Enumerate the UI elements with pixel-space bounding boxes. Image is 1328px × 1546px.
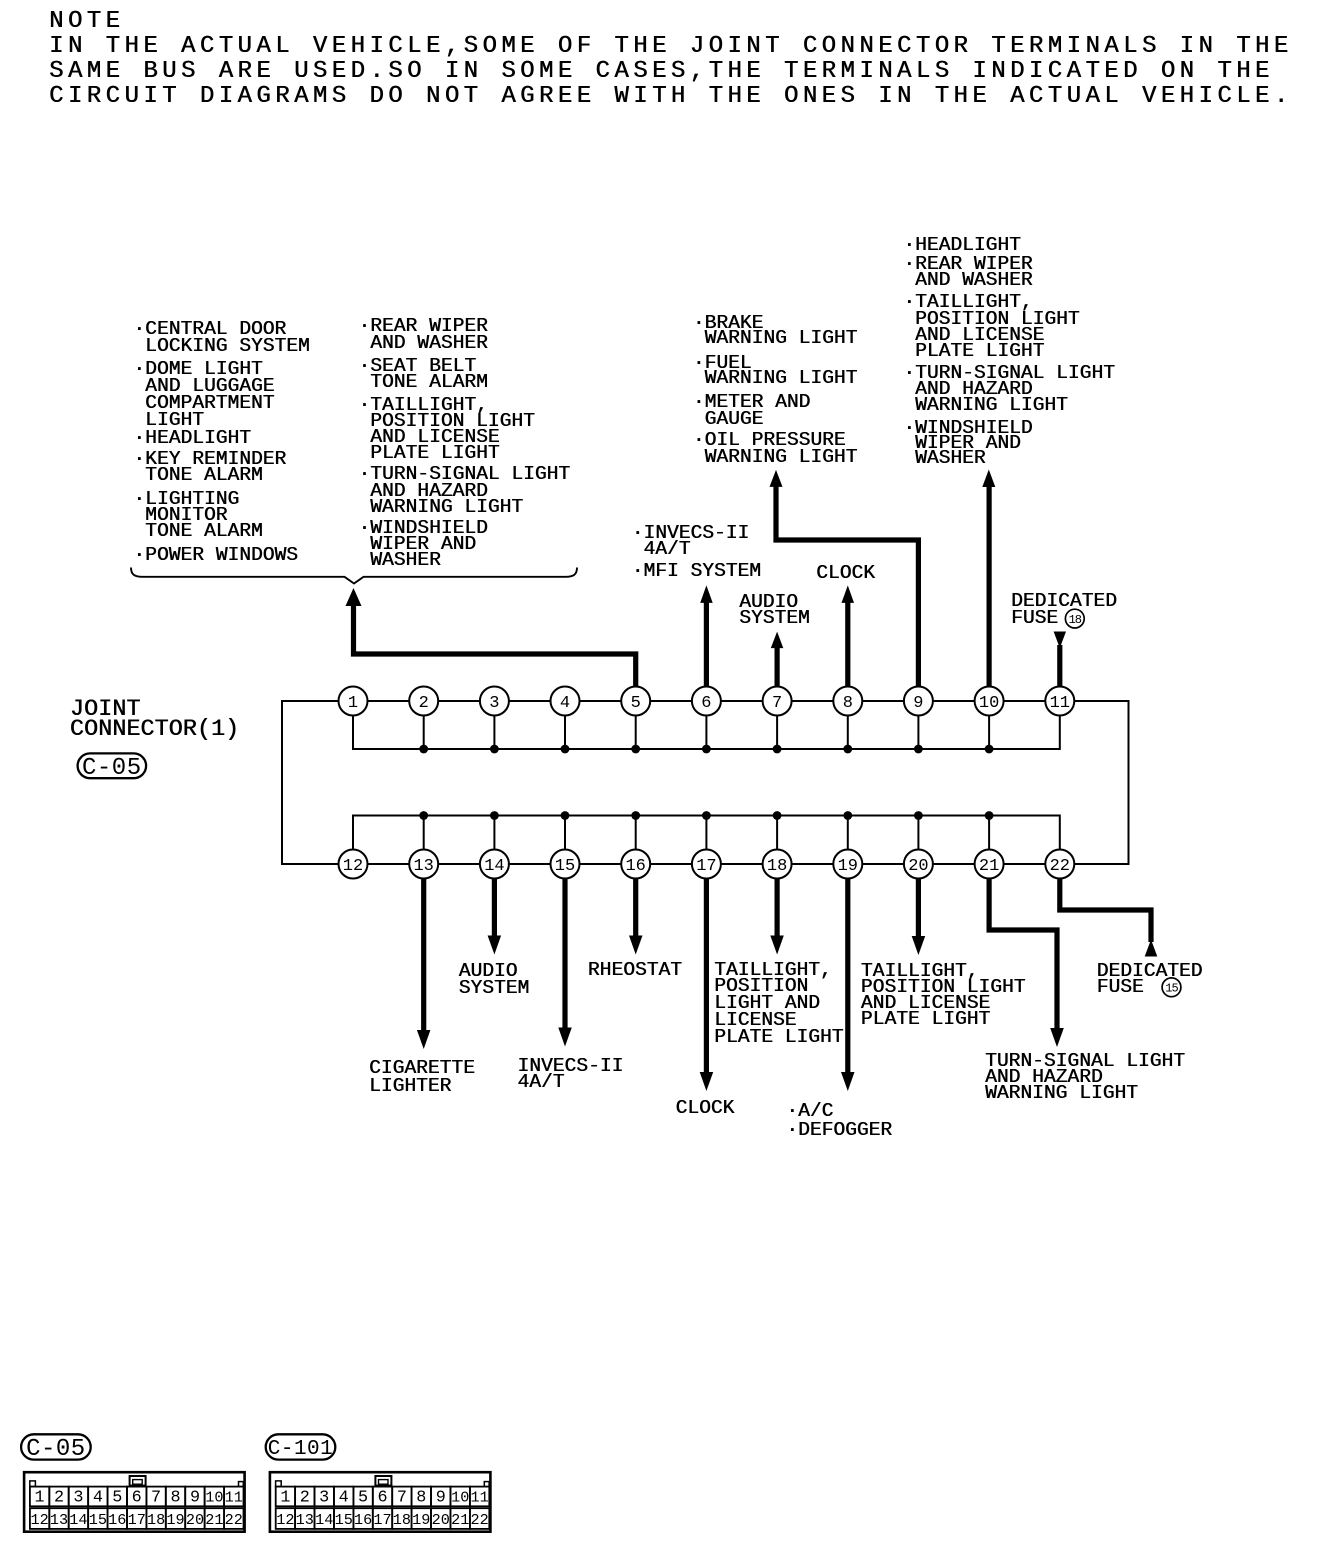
terminal 17 of joint connector C-05 [692,850,721,879]
wire: top row horizontal link terminals 1-11 [353,700,1060,702]
svg-text:4: 4 [339,1489,349,1508]
wire stub terminal 2 to upper bus [423,716,425,749]
label headlight (left block) [133,430,251,446]
terminal 1 of joint connector C-05 [339,687,368,716]
junction dot terminal 2 on upper bus [419,745,428,754]
svg-text:13: 13 [296,1511,314,1529]
junction dot terminal 17 on lower bus [702,811,711,820]
wire from terminal 9 up-left to warning lights (arrow up) [776,486,918,687]
terminal 11 of joint connector C-05 [1045,687,1074,716]
svg-text:3: 3 [73,1489,83,1508]
wire stub terminal 14 to lower bus [493,816,495,850]
terminal 22 of joint connector C-05 [1045,850,1074,879]
label JOINT CONNECTOR (1) [70,700,239,741]
label windshield wiper washer (left block) [358,520,487,568]
wire: right loop terminal 11 to terminal 22 [1074,701,1128,864]
terminal 8 of joint connector C-05 [833,687,862,716]
junction dot terminal 14 on lower bus [490,811,499,820]
wire stub terminal 19 to lower bus [847,816,849,850]
label rear wiper and washer (right block) [903,257,1032,288]
label taillight position license (right block) [903,294,1079,359]
wire arrow down terminal 18 to TAILLIGHT POSITION LIGHT AND LICENSE PLATE LIGHT [774,878,779,938]
junction dot terminal 4 on upper bus [561,745,570,754]
wire arrow up from terminal 7 (AUDIO SYSTEM) [774,647,779,687]
svg-text:14: 14 [69,1511,87,1529]
svg-text:16: 16 [625,857,645,876]
svg-text:2: 2 [54,1489,64,1508]
label key reminder tone alarm [133,451,286,483]
label taillight position license (left block) [358,397,534,461]
svg-text:18: 18 [393,1511,411,1529]
label invecs-II 4A/T (bottom) [517,1058,623,1091]
connector pinout drawing C-05 [24,1472,245,1532]
brace grouping body-equipment loads above terminal 5 wire [131,568,577,584]
svg-text:4: 4 [93,1489,103,1508]
wire stub terminal 7 to upper bus [776,716,778,749]
svg-text:12: 12 [343,857,363,876]
svg-text:6: 6 [701,694,711,713]
label fuel warning light [693,356,858,387]
svg-text:20: 20 [432,1511,450,1529]
junction dot terminal 3 on upper bus [490,745,499,754]
svg-text:22: 22 [470,1511,488,1529]
junction dot terminal 6 on upper bus [702,745,711,754]
circled number 18 (dedicated fuse 18) [1065,609,1084,628]
svg-text:22: 22 [1050,857,1070,876]
svg-text:15: 15 [555,857,575,876]
svg-text:14: 14 [315,1511,333,1529]
wire stub terminal 20 to lower bus [917,816,919,850]
wire stub terminal 17 to lower bus [705,816,707,850]
svg-text:6: 6 [377,1489,387,1508]
svg-text:19: 19 [838,857,858,876]
circled number 15 (dedicated fuse 15) [1162,978,1181,997]
label a/c defogger [786,1102,892,1140]
terminal 2 of joint connector C-05 [409,687,438,716]
svg-text:12: 12 [30,1511,48,1529]
wire arrow down terminal 20 to TAILLIGHT POSITION LIGHT AND LICENSE PLATE LIGHT [916,878,921,938]
svg-text:7: 7 [151,1489,161,1508]
svg-text:19: 19 [166,1511,184,1529]
wire stub terminal 4 to upper bus [564,716,566,749]
svg-text:16: 16 [108,1511,126,1529]
junction dot terminal 9 on upper bus [914,745,923,754]
wire arrow up from terminal 6 (MFI SYSTEM / INVECS-II) [704,602,709,687]
svg-text:10: 10 [205,1489,223,1507]
wire stub terminal 10 to upper bus [988,716,990,749]
label seat belt tone alarm [358,358,487,391]
wire from terminal 22 to dedicated fuse 15 [1060,878,1151,942]
wire stub terminal 13 to lower bus [423,816,425,850]
svg-text:1: 1 [348,694,358,713]
label oil pressure warning light [693,432,858,466]
connector designation box C-05 (joint connector 1) [78,753,147,782]
svg-text:C-05: C-05 [82,755,142,782]
label dedicated fuse 18 [1011,593,1117,627]
terminal 7 of joint connector C-05 [763,687,792,716]
label dome light and luggage compartment light [133,361,274,429]
junction dot terminal 13 on lower bus [419,811,428,820]
junction dot terminal 16 on lower bus [631,811,640,820]
svg-text:5: 5 [112,1489,122,1508]
label audio system (top) [739,595,810,627]
svg-text:6: 6 [132,1489,142,1508]
terminal 15 of joint connector C-05 [551,850,580,879]
terminal 13 of joint connector C-05 [409,850,438,879]
junction dot terminal 5 on upper bus [631,745,640,754]
terminal 6 of joint connector C-05 [692,687,721,716]
junction dot terminal 15 on lower bus [561,811,570,820]
svg-text:18: 18 [147,1511,165,1529]
note text block [49,10,1293,110]
svg-text:3: 3 [489,694,499,713]
wire stub terminal 3 to upper bus [493,716,495,749]
label power windows [133,547,298,563]
wire arrow down terminal 16 to RHEOSTAT [633,878,638,938]
svg-text:10: 10 [979,694,999,713]
wire: bottom row horizontal link terminals 12-22 [353,863,1060,865]
terminal 12 of joint connector C-05 [339,850,368,879]
wire stub terminal 5 to upper bus [635,716,637,749]
wire arrow down terminal 14 to AUDIO SYSTEM [492,878,497,938]
wire: upper bus joining terminals 1-11 [353,716,1060,749]
svg-text:7: 7 [772,694,782,713]
label cigarette lighter [369,1059,475,1095]
wire arrow up from terminal 8 (CLOCK) [845,602,850,687]
label brake warning light [693,316,858,347]
terminal 10 of joint connector C-05 [975,687,1004,716]
label MFI system [632,563,761,579]
junction dot terminal 18 on lower bus [773,811,782,820]
svg-text:20: 20 [908,857,928,876]
svg-text:14: 14 [484,857,504,876]
svg-text:C-101: C-101 [268,1438,334,1461]
svg-text:11: 11 [1050,694,1070,713]
wire arrow up from terminal 10 (windshield wiper group) [986,486,991,687]
svg-text:19: 19 [412,1511,430,1529]
svg-text:15: 15 [89,1511,107,1529]
svg-text:20: 20 [186,1511,204,1529]
svg-text:5: 5 [358,1489,368,1508]
label windshield wiper washer (right block) [903,421,1032,467]
terminal 5 of joint connector C-05 [621,687,650,716]
label rheostat [588,962,682,978]
wire to body-equipment group from terminal 5 (arrow up to brace) [354,604,636,687]
wire stub terminal 18 to lower bus [776,816,778,850]
svg-text:2: 2 [300,1489,310,1508]
wire arrow down terminal 17 to CLOCK [704,878,709,1074]
terminal 9 of joint connector C-05 [904,687,933,716]
terminal 21 of joint connector C-05 [975,850,1004,879]
svg-text:3: 3 [319,1489,329,1508]
connector pinout drawing C-101 [270,1472,491,1532]
svg-text:1: 1 [280,1489,290,1508]
label headlight (right block) [903,237,1021,253]
junction dot terminal 21 on lower bus [985,811,994,820]
svg-text:10: 10 [451,1489,469,1507]
connector designation box C-05 (bottom pinout) [21,1434,91,1463]
wire stub terminal 9 to upper bus [917,716,919,749]
label meter and gauge [693,394,811,428]
svg-text:11: 11 [225,1489,243,1507]
wire stub terminal 6 to upper bus [705,716,707,749]
label lighting monitor tone alarm [133,491,262,540]
label turn-signal hazard (left block) [358,466,570,516]
wire stub terminal 8 to upper bus [847,716,849,749]
svg-text:17: 17 [696,857,716,876]
svg-text:12: 12 [276,1511,294,1529]
junction dot terminal 8 on upper bus [843,745,852,754]
svg-text:C-05: C-05 [26,1436,86,1463]
terminal 14 of joint connector C-05 [480,850,509,879]
svg-text:8: 8 [843,694,853,713]
terminal 16 of joint connector C-05 [621,850,650,879]
terminal 4 of joint connector C-05 [551,687,580,716]
junction dot terminal 20 on lower bus [914,811,923,820]
svg-text:7: 7 [397,1489,407,1508]
svg-text:13: 13 [413,857,433,876]
svg-text:9: 9 [190,1489,200,1508]
svg-text:9: 9 [436,1489,446,1508]
label turn-signal hazard (right block) [903,366,1115,413]
svg-text:2: 2 [419,694,429,713]
svg-text:16: 16 [354,1511,372,1529]
svg-text:21: 21 [451,1511,469,1529]
label dedicated fuse 15 [1097,963,1203,995]
svg-text:9: 9 [913,694,923,713]
svg-text:4: 4 [560,694,570,713]
label audio system (bottom) [459,963,530,996]
terminal 3 of joint connector C-05 [480,687,509,716]
svg-text:13: 13 [50,1511,68,1529]
svg-text:17: 17 [373,1511,391,1529]
svg-text:5: 5 [631,694,641,713]
svg-text:17: 17 [128,1511,146,1529]
svg-text:8: 8 [170,1489,180,1508]
label central door locking system [133,321,309,356]
wire: lower bus joining terminals 12-22 [353,816,1060,850]
svg-text:8: 8 [416,1489,426,1508]
terminal 20 of joint connector C-05 [904,850,933,879]
svg-text:11: 11 [470,1489,488,1507]
terminal 19 of joint connector C-05 [833,850,862,879]
wire arrow down terminal 15 to INVECS-II 4A/T [562,878,567,1030]
junction dot terminal 19 on lower bus [843,811,852,820]
label clock (top) [816,565,875,581]
wire arrow down terminal 19 to A/C DEFOGGER [845,878,850,1074]
label clock (bottom) [676,1100,735,1116]
label taillight 4-line (terminal 20) [861,963,1026,1028]
label taillight 5-line (terminal 18) [714,962,843,1046]
svg-text:21: 21 [205,1511,223,1529]
wire stub terminal 16 to lower bus [635,816,637,850]
svg-text:22: 22 [225,1511,243,1529]
wire from terminal 21 down-right to TURN-SIGNAL LIGHT (arrow down) [989,878,1057,1029]
label rear wiper and washer (left block) [358,318,487,352]
terminal 18 of joint connector C-05 [763,850,792,879]
junction dot terminal 7 on upper bus [773,745,782,754]
junction dot terminal 10 on upper bus [985,745,994,754]
connector designation box C-101 (bottom pinout) [266,1434,336,1461]
wire arrow down terminal 13 to CIGARETTE LIGHTER [421,878,426,1032]
svg-text:1: 1 [35,1489,45,1508]
svg-text:21: 21 [979,857,999,876]
label invecs-II 4A/T (top) [632,526,750,558]
wire stub terminal 15 to lower bus [564,816,566,850]
label turn-signal hazard (bottom) [985,1053,1185,1102]
wire: left loop terminal 1 to terminal 12 [282,701,339,864]
wire from dedicated fuse 18 down into terminal 11 [1057,645,1062,687]
wire stub terminal 21 to lower bus [988,816,990,850]
svg-text:18: 18 [767,857,787,876]
svg-text:15: 15 [335,1511,353,1529]
